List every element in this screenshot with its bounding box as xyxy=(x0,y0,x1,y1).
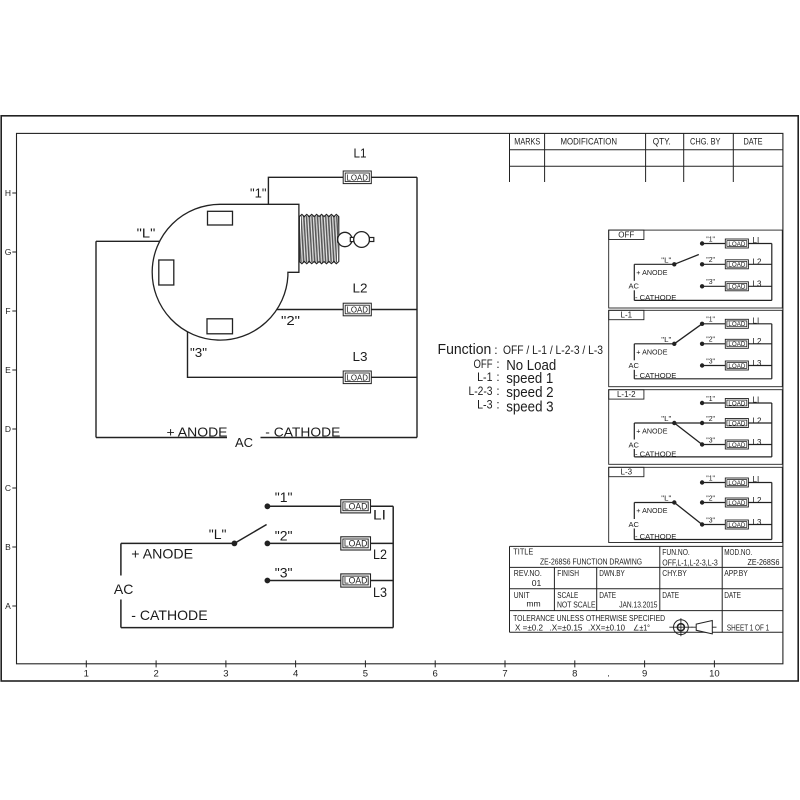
wire terminal 3 to LOAD (L-1) xyxy=(702,365,725,367)
switch S1 body xyxy=(152,204,299,340)
svg-text:LOAD: LOAD xyxy=(728,400,745,407)
svg-text:LOAD: LOAD xyxy=(728,420,745,427)
wire terminal 2 to LOAD (L-1-2) xyxy=(702,422,725,424)
svg-text:1: 1 xyxy=(84,668,89,679)
svg-text:LOAD: LOAD xyxy=(344,539,368,549)
svg-text:LI: LI xyxy=(753,396,760,405)
load L1 (L-1-2) xyxy=(725,399,748,408)
wire L to left bus (schematic) xyxy=(121,542,234,544)
wire right bus (schematic) xyxy=(392,506,394,627)
svg-text:SCALE: SCALE xyxy=(557,591,578,600)
switch blade OFF position (schematic) xyxy=(234,525,266,544)
svg-text:LOAD: LOAD xyxy=(728,442,745,449)
wire LOAD to bus row 1 (OFF) xyxy=(748,243,771,245)
svg-text:REV.NO.: REV.NO. xyxy=(514,569,542,578)
wire right bus (L-3) xyxy=(771,483,773,540)
svg-text:- CATHODE: - CATHODE xyxy=(131,607,207,623)
svg-text:JAN.13.2015: JAN.13.2015 xyxy=(619,600,657,610)
svg-text:L-3: L-3 xyxy=(477,400,492,412)
svg-text:3: 3 xyxy=(223,668,228,679)
wire LOAD L3 to right bus xyxy=(371,376,417,378)
svg-text:TITLE: TITLE xyxy=(513,548,533,557)
svg-text:MODIFICATION: MODIFICATION xyxy=(561,136,618,146)
node "2" (schematic) xyxy=(265,541,271,547)
wire LOAD L2 to right bus xyxy=(371,309,417,311)
svg-text:ZE-268S6: ZE-268S6 xyxy=(748,557,780,567)
panel OFF xyxy=(609,230,783,308)
svg-text:,: , xyxy=(608,669,610,678)
wire cathode bottom (L-1-2) xyxy=(634,456,772,458)
svg-text:"1": "1" xyxy=(250,186,267,201)
svg-text:A: A xyxy=(5,601,11,611)
svg-text:01: 01 xyxy=(532,578,542,588)
svg-text:L3: L3 xyxy=(373,584,387,600)
svg-text:F: F xyxy=(5,306,10,316)
svg-text:DATE: DATE xyxy=(724,591,741,600)
svg-text:"L": "L" xyxy=(661,255,671,264)
svg-text:LI: LI xyxy=(753,236,760,245)
node "2" (L-1) xyxy=(700,342,704,346)
svg-text:"1": "1" xyxy=(275,489,293,505)
wire LOAD to right bus row 2 (schematic) xyxy=(371,542,394,544)
wire left bus lower (OFF) xyxy=(633,290,635,300)
switch S1 pull chain xyxy=(338,232,374,248)
svg-text:"1": "1" xyxy=(706,473,715,482)
svg-text:"L": "L" xyxy=(137,226,156,241)
wire LOAD L1 to right bus xyxy=(371,176,417,178)
svg-text:"3": "3" xyxy=(706,515,715,524)
wire LOAD to bus row 2 (L-3) xyxy=(748,502,771,504)
svg-text:QTY.: QTY. xyxy=(653,136,671,146)
load L3 (L-1) xyxy=(725,361,748,370)
svg-text:L3: L3 xyxy=(753,518,762,527)
node "1" (OFF) xyxy=(700,241,704,245)
svg-text:LI: LI xyxy=(753,316,760,325)
node "2" (L-1-2) xyxy=(700,421,704,425)
svg-text:"3": "3" xyxy=(275,565,293,581)
svg-text:L3: L3 xyxy=(353,349,368,364)
svg-text:"1": "1" xyxy=(706,315,715,324)
wire terminal 1 to LOAD (L-3) xyxy=(702,482,725,484)
wire left bus upper (L-1) xyxy=(633,344,635,361)
svg-text:"2": "2" xyxy=(281,313,300,328)
svg-text:- CATHODE: - CATHODE xyxy=(635,449,676,458)
svg-text:APP.BY: APP.BY xyxy=(724,569,748,578)
svg-text:AC: AC xyxy=(235,435,253,450)
wire LOAD to bus row 3 (L-1-2) xyxy=(748,444,771,446)
svg-text:∠±1°: ∠±1° xyxy=(633,624,650,633)
svg-text:LOAD: LOAD xyxy=(728,321,745,328)
svg-text:"3": "3" xyxy=(706,277,715,286)
svg-text:DATE: DATE xyxy=(599,591,616,600)
svg-text:L2: L2 xyxy=(753,416,762,425)
load L1 (L-1) xyxy=(725,319,748,328)
svg-text:LOAD: LOAD xyxy=(346,172,368,182)
svg-text:"L": "L" xyxy=(661,494,671,503)
node "3" (L-1-2) xyxy=(700,442,704,446)
node "L" (schematic) xyxy=(232,541,238,547)
wire L to left bus (L-3) xyxy=(634,502,674,504)
projection target symbol xyxy=(669,618,692,636)
switch blade (L-1) xyxy=(674,324,702,344)
svg-text:L-1-2: L-1-2 xyxy=(617,390,636,399)
node "L" (L-1-2) xyxy=(672,421,676,425)
wire LOAD to bus row 1 (L-1) xyxy=(748,323,771,325)
svg-text:MARKS: MARKS xyxy=(514,136,540,146)
wire cathode bottom (schematic) xyxy=(121,627,393,629)
switch blade (L-1-2) xyxy=(674,422,702,424)
svg-text::: : xyxy=(494,343,497,357)
node "L" (OFF) xyxy=(672,262,676,266)
svg-text:7: 7 xyxy=(502,668,507,679)
svg-text:LOAD: LOAD xyxy=(728,241,745,248)
svg-text:"L": "L" xyxy=(661,335,671,344)
wire LOAD to bus row 2 (L-1) xyxy=(748,343,771,345)
svg-text:LOAD: LOAD xyxy=(346,372,368,382)
wire LOAD to bus row 3 (OFF) xyxy=(748,285,771,287)
svg-text:AC: AC xyxy=(629,520,640,529)
svg-text:+ ANODE: + ANODE xyxy=(636,268,667,277)
panel L-1-2 xyxy=(609,390,783,465)
node "L" (L-1) xyxy=(672,342,676,346)
svg-text:OFF / L-1 / L-2-3 / L-3: OFF / L-1 / L-2-3 / L-3 xyxy=(503,343,603,357)
svg-text:LOAD: LOAD xyxy=(728,480,745,487)
svg-text:L-1: L-1 xyxy=(621,311,633,320)
switch S1 threaded stem xyxy=(299,214,338,263)
svg-text:LOAD: LOAD xyxy=(344,502,368,512)
wire left bus lower (L-1-2) xyxy=(633,449,635,457)
wire terminal 3 to LOAD (L-1-2) xyxy=(702,444,725,446)
terminal slot 1 xyxy=(208,211,233,225)
svg-text:+ ANODE: + ANODE xyxy=(131,545,193,561)
wire LOAD to bus row 2 (OFF) xyxy=(748,263,771,265)
wire terminal 3 to LOAD L3 xyxy=(188,332,344,378)
node "3" (L-1) xyxy=(700,363,704,367)
revision table xyxy=(510,133,783,182)
svg-text:+ ANODE: + ANODE xyxy=(636,506,667,515)
svg-text:LOAD: LOAD xyxy=(346,305,368,315)
load L1 (OFF) xyxy=(725,239,748,248)
svg-text:LOAD: LOAD xyxy=(728,284,745,291)
panel L-3 xyxy=(609,467,783,542)
svg-text:L2: L2 xyxy=(353,280,368,295)
wire left bus lower (L-1) xyxy=(633,370,635,379)
wire LOAD to right bus row 3 (schematic) xyxy=(371,580,394,582)
svg-text::: : xyxy=(496,372,499,384)
projection cone symbol xyxy=(692,621,717,634)
switch blade (L-3) xyxy=(674,503,702,525)
svg-text:- CATHODE: - CATHODE xyxy=(265,425,340,440)
wire left bus upper (L-3) xyxy=(633,503,635,520)
svg-text:H: H xyxy=(5,188,11,198)
title block xyxy=(510,546,783,632)
svg-text:X =±0.2: X =±0.2 xyxy=(515,624,544,633)
svg-text:C: C xyxy=(5,483,11,493)
svg-text:DWN.BY: DWN.BY xyxy=(599,569,625,578)
svg-text:"2": "2" xyxy=(706,493,715,502)
svg-text:- CATHODE: - CATHODE xyxy=(635,532,676,541)
wire left bus upper (L-1-2) xyxy=(633,423,635,440)
wire LOAD to bus row 3 (L-3) xyxy=(748,524,771,526)
wire cathode bottom (L-1) xyxy=(634,378,772,380)
node "2" (L-3) xyxy=(700,500,704,504)
svg-text:"1": "1" xyxy=(706,394,715,403)
svg-text:FUN.NO.: FUN.NO. xyxy=(662,548,690,557)
wire cathode bottom (OFF) xyxy=(634,299,772,301)
wire terminal 2 to LOAD L2 xyxy=(277,309,344,311)
svg-text:DATE: DATE xyxy=(744,136,763,146)
svg-text:LI: LI xyxy=(373,507,386,523)
svg-text:L1: L1 xyxy=(354,146,367,161)
svg-text:L-1: L-1 xyxy=(477,372,492,384)
svg-text:Function: Function xyxy=(438,341,492,358)
svg-text:L3: L3 xyxy=(753,438,762,447)
svg-text:"2": "2" xyxy=(275,527,293,543)
svg-text:8: 8 xyxy=(572,668,577,679)
wire terminal 2 to LOAD (schematic) xyxy=(267,542,340,544)
svg-text:FINISH: FINISH xyxy=(557,569,579,578)
svg-text:"2": "2" xyxy=(706,414,715,423)
wire terminal 2 to LOAD (L-3) xyxy=(702,502,725,504)
svg-text:4: 4 xyxy=(293,668,298,679)
svg-text:mm: mm xyxy=(526,599,540,609)
wire terminal 3 to LOAD (OFF) xyxy=(702,285,725,287)
wire terminal 2 to LOAD (L-1) xyxy=(702,343,725,345)
wire terminal 1 to LOAD (L-1) xyxy=(702,323,725,325)
svg-text:5: 5 xyxy=(363,668,368,679)
svg-text:TOLERANCE UNLESS OTHERWISE SPE: TOLERANCE UNLESS OTHERWISE SPECIFIED xyxy=(513,614,665,623)
wire terminal 1 to LOAD (L-1-2) xyxy=(702,402,725,404)
svg-text:+ ANODE: + ANODE xyxy=(636,427,667,436)
terminal slot 3 xyxy=(207,319,233,334)
svg-text:"1": "1" xyxy=(706,234,715,243)
svg-text:OFF,L-1,L-2-3,L-3: OFF,L-1,L-2-3,L-3 xyxy=(662,557,718,567)
wire LOAD to bus row 3 (L-1) xyxy=(748,365,771,367)
svg-text:L3: L3 xyxy=(753,280,762,289)
wire LOAD to bus row 1 (L-1-2) xyxy=(748,402,771,404)
svg-text:9: 9 xyxy=(642,668,647,679)
wire LOAD to right bus row 1 (schematic) xyxy=(371,505,394,507)
svg-text:LOAD: LOAD xyxy=(728,341,745,348)
node "1" (schematic) xyxy=(265,503,271,509)
svg-text:"3": "3" xyxy=(706,356,715,365)
wire L to left bus (L-1) xyxy=(634,343,674,345)
wire terminal 1 to LOAD (schematic) xyxy=(267,505,340,507)
svg-text:+ ANODE: + ANODE xyxy=(167,425,228,440)
wire AC bottom left segment xyxy=(96,437,227,439)
svg-text:AC: AC xyxy=(629,361,640,370)
svg-text::: : xyxy=(496,386,499,398)
load L3 (OFF) xyxy=(725,282,748,291)
svg-text:"3": "3" xyxy=(190,345,207,360)
load L3 (L-3) xyxy=(725,520,748,529)
load L3 (schematic) xyxy=(341,574,371,587)
terminal slot L xyxy=(159,260,174,285)
wire right bus (L-1) xyxy=(771,324,773,379)
svg-text:"2": "2" xyxy=(706,255,715,264)
wire L to left bus (OFF) xyxy=(634,263,674,265)
svg-text:AC: AC xyxy=(629,440,640,449)
svg-text:MOD.NO.: MOD.NO. xyxy=(724,548,752,557)
node "L" (L-3) xyxy=(672,500,676,504)
function description text xyxy=(438,341,604,415)
svg-text:AC: AC xyxy=(114,581,133,597)
svg-text::: : xyxy=(496,400,499,412)
svg-text:LOAD: LOAD xyxy=(344,576,368,586)
svg-text:CHG. BY: CHG. BY xyxy=(690,136,721,146)
svg-text:10: 10 xyxy=(709,668,720,679)
svg-text:DATE: DATE xyxy=(662,591,679,600)
svg-text:CHY.BY: CHY.BY xyxy=(662,569,687,578)
switch blade (OFF) xyxy=(674,255,699,265)
svg-text:L3: L3 xyxy=(753,359,762,368)
svg-text:NOT SCALE: NOT SCALE xyxy=(557,600,596,610)
wire node L to left bus xyxy=(96,240,159,242)
svg-text:LOAD: LOAD xyxy=(728,262,745,269)
svg-text:.XX=±0.10: .XX=±0.10 xyxy=(588,624,626,633)
wire right bus (L-1-2) xyxy=(771,403,773,457)
svg-text:LOAD: LOAD xyxy=(728,500,745,507)
load L3 (top diagram) xyxy=(343,371,371,384)
svg-text:.X=±0.15: .X=±0.15 xyxy=(550,624,584,633)
svg-text:AC: AC xyxy=(629,282,640,291)
svg-text:D: D xyxy=(5,424,11,434)
svg-text:LOAD: LOAD xyxy=(728,522,745,529)
wire AC bottom right segment xyxy=(261,437,418,439)
load L2 (L-1-2) xyxy=(725,419,748,428)
wire right bus xyxy=(416,177,418,437)
svg-text::: : xyxy=(496,359,499,371)
node "1" (L-1-2) xyxy=(700,401,704,405)
wire right bus (OFF) xyxy=(771,244,773,301)
svg-text:B: B xyxy=(5,542,11,552)
load L1 (top diagram) xyxy=(343,171,371,184)
svg-text:"L": "L" xyxy=(661,414,671,423)
svg-text:"2": "2" xyxy=(706,335,715,344)
svg-text:OFF: OFF xyxy=(474,359,493,371)
node "1" (L-1) xyxy=(700,322,704,326)
svg-text:6: 6 xyxy=(433,668,438,679)
svg-text:- CATHODE: - CATHODE xyxy=(635,371,676,380)
load L3 (L-1-2) xyxy=(725,440,748,449)
wire left bus upper (schematic) xyxy=(120,543,122,575)
node "1" (L-3) xyxy=(700,480,704,484)
panel L-1 xyxy=(609,310,783,386)
svg-text:ZE-268S6 FUNCTION DRAWING: ZE-268S6 FUNCTION DRAWING xyxy=(540,556,642,566)
load L2 (L-3) xyxy=(725,498,748,507)
svg-text:L2: L2 xyxy=(753,258,762,267)
svg-text:"3": "3" xyxy=(706,435,715,444)
node "3" (OFF) xyxy=(700,284,704,288)
wire left bus upper (OFF) xyxy=(633,264,635,281)
load L1 (schematic) xyxy=(341,500,371,513)
load L2 (L-1) xyxy=(725,339,748,348)
node "3" (schematic) xyxy=(265,578,271,584)
wire terminal 3 to LOAD (schematic) xyxy=(267,580,340,582)
wire terminal 1 to LOAD (OFF) xyxy=(702,243,725,245)
svg-text:2: 2 xyxy=(153,668,158,679)
wire terminal 3 to LOAD (L-3) xyxy=(702,524,725,526)
svg-text:G: G xyxy=(5,247,12,257)
node "3" (L-3) xyxy=(700,522,704,526)
svg-text:"L": "L" xyxy=(209,526,227,542)
svg-text:OFF: OFF xyxy=(618,231,634,240)
node "2" (OFF) xyxy=(700,262,704,266)
wire LOAD to bus row 2 (L-1-2) xyxy=(748,422,771,424)
svg-text:speed 3: speed 3 xyxy=(506,398,553,415)
load L2 (schematic) xyxy=(341,537,371,550)
wire left bus lower (L-3) xyxy=(633,529,635,540)
svg-text:L2: L2 xyxy=(373,546,387,562)
svg-text:L-3: L-3 xyxy=(621,468,633,477)
wire L to left bus (L-1-2) xyxy=(634,422,674,424)
svg-text:L2: L2 xyxy=(753,337,762,346)
svg-text:SHEET 1 OF 1: SHEET 1 OF 1 xyxy=(727,623,770,633)
wire left bus lower (schematic) xyxy=(120,600,122,628)
load L2 (OFF) xyxy=(725,260,748,269)
svg-text:L2: L2 xyxy=(753,496,762,505)
svg-text:LI: LI xyxy=(753,475,760,484)
wire LOAD to bus row 1 (L-3) xyxy=(748,482,771,484)
svg-text:E: E xyxy=(5,365,11,375)
svg-text:- CATHODE: - CATHODE xyxy=(635,293,676,302)
svg-text:LOAD: LOAD xyxy=(728,363,745,370)
wire terminal 2 to LOAD (OFF) xyxy=(702,263,725,265)
wire left bus anode side xyxy=(95,241,97,437)
wire terminal 1 to LOAD L1 xyxy=(268,177,343,204)
svg-text:+ ANODE: + ANODE xyxy=(636,348,667,357)
wire cathode bottom (L-3) xyxy=(634,539,772,541)
load L2 (top diagram) xyxy=(343,303,371,316)
svg-text:L-2-3: L-2-3 xyxy=(469,386,493,398)
load L1 (L-3) xyxy=(725,478,748,487)
